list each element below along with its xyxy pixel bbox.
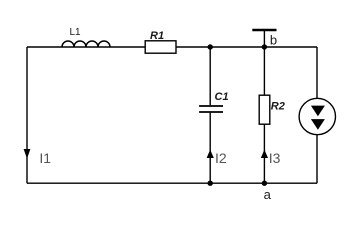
current source (double-arrow symbol) <box>299 98 335 134</box>
inductor L1 <box>62 41 110 47</box>
svg-text:I3: I3 <box>269 150 281 166</box>
svg-text:I2: I2 <box>215 150 227 166</box>
capacitor C1 <box>199 106 223 112</box>
wire: top horizontal from left corner to right corner <box>27 46 317 48</box>
wire: C1 branch vertical <box>209 47 211 183</box>
svg-text:L1: L1 <box>70 27 82 38</box>
node junction dot bottom-right (node a) <box>262 181 267 186</box>
node junction dot top-right (node b) <box>262 44 267 49</box>
resistor R1 <box>145 41 176 53</box>
node junction dot top-left (C1 branch) <box>208 44 213 49</box>
wire: left vertical <box>26 47 28 183</box>
wire: bottom horizontal <box>27 182 317 184</box>
wire: R2 branch vertical <box>263 47 265 183</box>
terminal b (bar + stem) <box>252 29 276 31</box>
svg-text:R2: R2 <box>271 100 285 112</box>
resistor R2 <box>259 95 270 124</box>
svg-text:b: b <box>270 33 277 48</box>
svg-text:a: a <box>264 187 272 202</box>
svg-text:I1: I1 <box>39 150 51 166</box>
node junction dot bottom-left <box>208 181 213 186</box>
current arrow I1 (down) <box>24 149 31 159</box>
svg-text:C1: C1 <box>215 91 229 103</box>
wire: right vertical <box>316 47 318 183</box>
current arrow I2 (up) <box>207 150 214 158</box>
svg-text:R1: R1 <box>150 30 164 42</box>
current arrow I3 (up) <box>261 150 268 158</box>
